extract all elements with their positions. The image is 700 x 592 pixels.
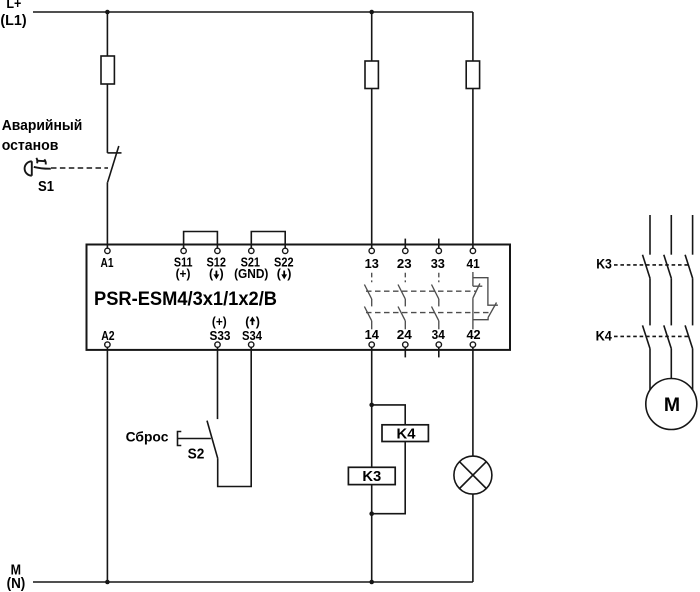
terminal 24 — [403, 342, 408, 347]
node junction K4 branch bottom — [369, 511, 374, 516]
arrow up S34 — [250, 317, 256, 326]
arrow down S12 — [214, 271, 220, 280]
K3 dashed actuator link — [614, 264, 689, 266]
svg-text:): ) — [256, 315, 260, 329]
terminal 14 — [369, 342, 374, 347]
node junction K3 on M rail — [369, 580, 374, 585]
coil K4 box — [382, 425, 428, 442]
wire S1 to A1 — [106, 182, 108, 248]
svg-text:останов: останов — [2, 137, 59, 154]
wire 41 branch from rail corner — [472, 12, 474, 61]
svg-text:L+: L+ — [6, 0, 21, 11]
wire S2 to bottom of reset loop — [218, 347, 252, 486]
svg-text:42: 42 — [466, 327, 480, 342]
wire 14 down to junction — [371, 347, 373, 467]
wire fuse F2 to 13 — [371, 89, 373, 249]
wire fuse F1 to S1 — [106, 84, 108, 153]
node junction A1 branch on L+ rail — [105, 10, 110, 15]
svg-text:34: 34 — [432, 327, 446, 342]
wire K4 to junction bottom — [372, 442, 406, 514]
K4 dashed actuator link — [614, 335, 689, 337]
switch S2 NO blade — [207, 421, 218, 459]
labels — [0, 0, 26, 592]
three-phase wire L1 top — [649, 215, 651, 255]
motor M circle — [646, 379, 697, 430]
mechanical coupling dashed line upper — [366, 290, 476, 292]
contactor K3 contact phase 3 — [685, 255, 693, 326]
coil K3 box — [348, 467, 395, 484]
wire 42 down to lamp — [472, 347, 474, 456]
svg-text:(GND): (GND) — [234, 267, 268, 281]
relay block PSR-ESM4 outline — [87, 245, 511, 350]
wire K4 branch — [372, 405, 406, 425]
wire L+ top rail — [33, 11, 473, 13]
label (down arrow) of S12 — [209, 267, 224, 281]
terminal S22 — [283, 248, 288, 253]
svg-text:(+): (+) — [176, 267, 191, 281]
svg-text:14: 14 — [365, 327, 380, 342]
svg-text:Сброс: Сброс — [126, 430, 169, 445]
terminal S12 — [215, 248, 220, 253]
fuse F2 — [365, 61, 378, 89]
svg-text:S2: S2 — [188, 446, 205, 462]
wire stub above terminal 33 — [438, 239, 440, 249]
svg-text:A2: A2 — [101, 328, 114, 343]
terminal S33 — [215, 342, 220, 347]
wire M bottom rail — [33, 581, 473, 583]
wire 13 branch upper — [371, 12, 373, 61]
mechanical coupling dashed line lower — [366, 312, 492, 314]
wire A1 branch upper — [106, 12, 108, 56]
contact path 33-34 internal — [432, 273, 439, 330]
push button actuator S2 — [178, 432, 211, 446]
svg-text:23: 23 — [397, 256, 412, 271]
node junction K4 branch top — [369, 403, 374, 408]
contact path 41-42 NC internal — [473, 272, 498, 329]
wire K3 to M rail — [371, 485, 373, 582]
wire stub below terminal 34 — [438, 347, 440, 357]
svg-text:PSR-ESM4/3x1/1x2/B: PSR-ESM4/3x1/1x2/B — [94, 289, 277, 310]
fuse F3 — [466, 61, 479, 89]
terminal S34 — [249, 342, 254, 347]
terminal 42 — [470, 342, 475, 347]
svg-text:(L1): (L1) — [0, 12, 26, 29]
label (down arrow) of S22 — [277, 267, 292, 281]
svg-text:): ) — [287, 267, 291, 281]
contactor K3 contact phase 1 — [643, 255, 651, 326]
node junction 13 branch on L+ rail — [369, 10, 374, 15]
emergency stop mushroom head S1 — [25, 158, 51, 176]
contactor K4 contact phase 2 — [664, 325, 672, 378]
wire stub below terminal 24 — [404, 347, 406, 357]
svg-text:K4: K4 — [596, 329, 613, 344]
contactor K4 contact phase 1 — [643, 325, 651, 390]
jumper S21-S22 — [251, 232, 285, 249]
terminal circles — [105, 248, 476, 347]
terminal 23 — [403, 248, 408, 253]
node junction A2 on M rail — [105, 580, 110, 585]
svg-text:K4: K4 — [397, 426, 416, 442]
wire S1 dashed actuator link — [51, 167, 108, 169]
terminal 34 — [436, 342, 441, 347]
terminal A1 — [105, 248, 110, 253]
terminal A2 — [105, 342, 110, 347]
arrow down S22 — [281, 271, 287, 280]
terminal 33 — [436, 248, 441, 253]
terminal 13 — [369, 248, 374, 253]
jumper S11-S12 — [184, 232, 218, 249]
svg-text:33: 33 — [431, 256, 445, 271]
svg-text:K3: K3 — [596, 257, 612, 272]
contactor K4 contact phase 3 — [685, 325, 693, 390]
fuse F1 — [101, 56, 114, 84]
switch S1 NC contact — [107, 146, 121, 182]
contact path 13-14 internal — [364, 273, 371, 330]
wire fuse F3 to 41 — [472, 89, 474, 249]
contact path 23-24 internal — [398, 273, 405, 330]
svg-text:A1: A1 — [101, 255, 114, 270]
terminal S11 — [181, 248, 186, 253]
wire S33 down to S2 — [217, 347, 219, 419]
svg-text:K3: K3 — [362, 469, 381, 485]
wire stub above terminal 23 — [404, 239, 406, 249]
label (up arrow) of S34 — [245, 315, 260, 329]
three-phase wire L3 top — [692, 215, 694, 255]
svg-text:): ) — [220, 267, 224, 281]
terminal 41 — [470, 248, 475, 253]
svg-text:M: M — [664, 394, 680, 416]
svg-text:13: 13 — [365, 256, 379, 271]
svg-text:S34: S34 — [242, 328, 263, 343]
svg-text:S33: S33 — [210, 328, 231, 343]
wire A2 to M rail — [106, 347, 108, 582]
svg-text:Аварийный: Аварийный — [2, 117, 83, 134]
lamp H1 — [454, 456, 492, 494]
svg-text:S1: S1 — [38, 179, 54, 195]
svg-text:(+): (+) — [212, 315, 227, 329]
three-phase wire L2 top — [670, 215, 672, 255]
svg-text:24: 24 — [397, 327, 413, 342]
svg-text:41: 41 — [467, 256, 480, 271]
terminal S21 — [249, 248, 254, 253]
contactor K3 contact phase 2 — [664, 255, 672, 326]
svg-text:(N): (N) — [7, 576, 26, 592]
wire lamp to M rail corner — [472, 494, 474, 582]
